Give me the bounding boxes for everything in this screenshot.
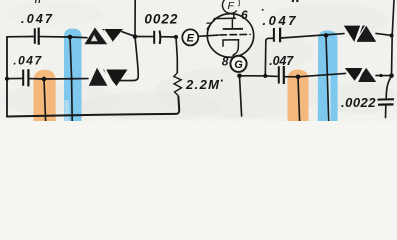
tube V1 plate lead from F cap bbox=[232, 12, 233, 29]
capacitor C4 .047 (right top) plates bbox=[274, 28, 280, 43]
node: blue junction top left bbox=[68, 35, 73, 40]
svg-text:0022: 0022 bbox=[144, 12, 177, 27]
wire: second row cap to orange junction bbox=[29, 78, 44, 80]
tube V1 plate cap wire (pin 6 bar) bbox=[214, 18, 236, 21]
wire: blue-marked right vertical bbox=[326, 35, 329, 121]
wire: blue-marked vertical (top junction to bottom edge) bbox=[70, 37, 72, 121]
wire: orange junction to diode CR4 bbox=[298, 73, 346, 76]
wire: right bus lead down to .0022 cap bbox=[386, 76, 391, 98]
wire: orange-marked right vertical bbox=[298, 77, 300, 121]
cut-off text marks at top edge bbox=[36, 0, 40, 3]
svg-text:.047: .047 bbox=[21, 12, 53, 26]
node: diode output x135 bbox=[133, 34, 138, 39]
node: right cap branch bbox=[263, 74, 267, 78]
wire: node down and curve into diode CR2 output bbox=[119, 37, 138, 81]
wire: lead below .0022 cap bbox=[385, 106, 387, 118]
node: right bus top bbox=[390, 34, 394, 38]
svg-text:·: · bbox=[220, 73, 224, 88]
node: orange junction right bbox=[296, 75, 301, 80]
node: bus / second row bbox=[5, 77, 9, 81]
svg-text:8: 8 bbox=[222, 54, 229, 68]
capacitor C2 .047 (second row left) plates bbox=[23, 69, 28, 86]
wire: vertical up from G wire to right .047 cap bbox=[265, 38, 273, 76]
svg-text:.0022: .0022 bbox=[341, 95, 376, 110]
capacitor C3 .0022 (coupling) plates bbox=[154, 31, 160, 45]
wire: diode CR1 to node at x135 bbox=[122, 32, 135, 37]
wire: orange junction to diode CR2 bbox=[44, 78, 88, 80]
svg-text:6: 6 bbox=[241, 8, 248, 22]
node: G terminal bbox=[237, 74, 242, 79]
wire: diode CR4 to right bus bbox=[376, 75, 392, 77]
wire: second row right: G junction to cap bbox=[265, 75, 277, 78]
highlight marker orange band right bbox=[288, 70, 309, 122]
tube V1 envelope bbox=[207, 14, 253, 58]
paper background bbox=[0, 0, 397, 121]
capacitor C1 .047 (top left) plates bbox=[35, 28, 39, 45]
value labels bbox=[13, 8, 376, 110]
wire: blue junction to diode CR1 bbox=[70, 36, 87, 39]
diode CR2 (second row left): solid up-triangle + down-triangle bbox=[89, 68, 128, 86]
test point E circle bbox=[182, 29, 198, 45]
wire: vertical down from G junction bbox=[240, 76, 242, 116]
node: CR4 output bbox=[379, 74, 382, 77]
svg-text:F: F bbox=[228, 0, 235, 12]
node: right bus / diode row bbox=[389, 73, 394, 78]
wire: right .047 cap to blue junction and diode CR3 bbox=[281, 34, 344, 38]
wire: diode CR3 to right bus bbox=[376, 33, 392, 35]
wire: cap to orange junction bbox=[284, 76, 298, 78]
wire: right vertical bus bbox=[392, 0, 395, 76]
tube V1 cathode bbox=[223, 40, 239, 56]
wire: orange-marked vertical (junction to bottom edge) bbox=[44, 79, 46, 121]
tube V1 plate bbox=[223, 28, 243, 30]
svg-text:.047: .047 bbox=[269, 54, 294, 68]
test point F circle bbox=[222, 0, 236, 13]
wire: second row from bus to cap bbox=[7, 77, 22, 79]
highlight marker blue band right bbox=[318, 31, 338, 77]
junction dots bbox=[5, 33, 394, 81]
wire: bottom bus bbox=[7, 97, 179, 117]
svg-text:.047: .047 bbox=[13, 54, 42, 68]
test point G circle bbox=[230, 56, 246, 72]
wire: vertical feed from top edge to node bbox=[134, 0, 136, 37]
resistor R1 2.2M zigzag bbox=[174, 73, 182, 96]
wire: node E to tube grid bbox=[199, 35, 219, 36]
highlight marker blue band left bbox=[64, 29, 82, 122]
wire: cap .0022 to node E bbox=[161, 36, 176, 38]
wire: left vertical bus bbox=[6, 37, 8, 117]
node: blue junction right bbox=[324, 33, 329, 38]
wire: top row left segment bbox=[7, 36, 34, 38]
capacitor C6 .0022 (bottom right, horizontal plates) bbox=[378, 99, 395, 104]
tube grid (dashed) bbox=[220, 33, 250, 36]
diode CR1 (top left): outlined up-triangle + solid down-triangle bbox=[86, 29, 123, 43]
svg-text:7: 7 bbox=[206, 21, 213, 33]
wire: G terminal to right bbox=[240, 75, 266, 77]
svg-text:E: E bbox=[187, 33, 195, 45]
diode CR3 (top right): solid down-triangle + solid up-triangle bbox=[344, 25, 376, 42]
wire: top row cap to blue junction bbox=[40, 36, 70, 38]
stray mark bbox=[261, 9, 264, 12]
svg-text:G: G bbox=[234, 59, 243, 71]
wire: resistor top lead from node bbox=[176, 37, 177, 73]
node: blue vertical crossing second row bbox=[70, 77, 73, 80]
diode CR4 (second row right): solid down-triangle + solid up-triangle bbox=[345, 68, 376, 83]
node: orange junction left bbox=[42, 77, 47, 82]
capacitor C5 .047 (right second row) plates bbox=[279, 66, 284, 84]
svg-text:2.2M: 2.2M bbox=[185, 77, 220, 92]
highlight marker orange band left bbox=[34, 70, 56, 121]
wire: node to coupling cap .0022 bbox=[135, 36, 153, 38]
node: E / resistor tap bbox=[174, 35, 178, 39]
